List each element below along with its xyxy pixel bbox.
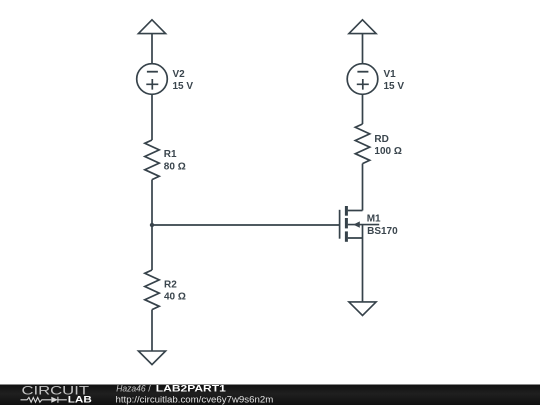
svg-text:LAB2PART1: LAB2PART1	[156, 384, 226, 394]
svg-text:Haza46: Haza46	[116, 384, 145, 394]
svg-text:15 V: 15 V	[173, 81, 194, 92]
svg-text:R2: R2	[164, 280, 177, 291]
svg-text:100 Ω: 100 Ω	[374, 146, 401, 157]
svg-text:http://circuitlab.com/cve6y7w9: http://circuitlab.com/cve6y7w9s6n2m	[116, 394, 274, 404]
svg-text:V1: V1	[384, 69, 397, 80]
svg-text:15 V: 15 V	[384, 81, 405, 92]
svg-text:80 Ω: 80 Ω	[164, 162, 186, 173]
svg-text:40 Ω: 40 Ω	[164, 292, 186, 303]
svg-text:R1: R1	[164, 149, 177, 160]
svg-text:V2: V2	[173, 69, 186, 80]
svg-text:M1: M1	[367, 213, 381, 224]
svg-text:RD: RD	[374, 134, 388, 145]
svg-text:BS170: BS170	[367, 226, 398, 237]
svg-text:LAB: LAB	[68, 395, 92, 405]
